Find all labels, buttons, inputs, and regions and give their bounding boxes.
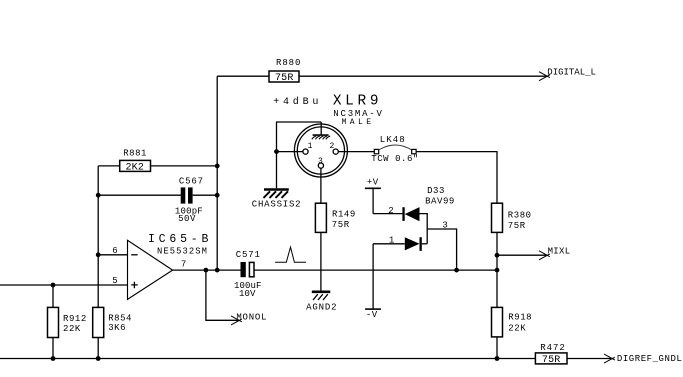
svg-text:R149: R149 <box>332 209 356 219</box>
resistor R881 <box>120 160 151 171</box>
value 22K of R918 <box>508 323 526 333</box>
wire MONOL branch <box>206 270 239 320</box>
svg-text:75R: 75R <box>508 221 526 231</box>
label R880 <box>276 58 301 68</box>
wire R912 bottom <box>52 338 54 359</box>
svg-text:+V: +V <box>367 177 379 187</box>
resistor R472 <box>535 353 567 364</box>
label NC3MA-V <box>333 109 383 119</box>
wire R912 top <box>52 285 54 307</box>
svg-text:1: 1 <box>389 235 395 245</box>
XLR pin 2 circle <box>333 149 338 154</box>
value 75R of R880 <box>275 73 294 84</box>
op-amp plus sign <box>131 282 138 289</box>
jumper LK48 left pad <box>374 149 378 153</box>
diode D33a triangle <box>405 207 420 221</box>
label R854 <box>108 313 132 323</box>
capacitor C571 minus plate <box>249 262 254 276</box>
pin number 6 <box>112 246 118 256</box>
label BAV99 <box>425 196 455 206</box>
wire pin2 to LK48 <box>338 151 374 153</box>
ground CHASSIS2 bar <box>264 188 289 191</box>
svg-text:NE5532SM: NE5532SM <box>157 247 208 257</box>
junction shell-pin1 <box>274 149 279 154</box>
resistor R149 <box>315 203 326 232</box>
wire diode pin1 <box>373 243 405 245</box>
junction rail-R854 <box>96 356 101 361</box>
svg-text:1: 1 <box>308 142 313 151</box>
svg-text:DIGITAL_L: DIGITAL_L <box>547 67 596 77</box>
pin number 3 of XLR <box>318 157 323 166</box>
resistor R854 <box>93 307 104 337</box>
svg-text:IC65-B: IC65-B <box>148 233 212 246</box>
op-amp minus sign <box>131 254 137 256</box>
label R149 <box>332 209 356 219</box>
svg-text:MONOL: MONOL <box>236 312 267 322</box>
resistor R918 <box>492 307 503 337</box>
wire diode pin2 <box>373 213 402 215</box>
XLR shell chassis hatch <box>312 135 330 139</box>
value TCW 0.6" <box>371 154 419 164</box>
junction MIXL <box>495 253 500 258</box>
pin number 3 of D33 <box>442 221 448 231</box>
diode D33b triangle <box>405 237 420 250</box>
junction output-monol <box>204 268 209 273</box>
wire inverting node vertical <box>97 166 99 308</box>
label R912 <box>63 314 87 324</box>
wire op-amp pin6 <box>98 254 127 256</box>
junction input-R912 <box>51 283 56 288</box>
node MONOL arrow <box>231 316 242 325</box>
label +V <box>367 177 379 187</box>
value 75R of R472 <box>542 355 561 366</box>
wire XLR shell to chassis <box>277 122 322 188</box>
value 75R of R380 <box>508 221 526 231</box>
svg-text:R854: R854 <box>108 313 132 323</box>
svg-text:R881: R881 <box>123 149 147 159</box>
svg-text:75R: 75R <box>332 220 350 230</box>
svg-text:2: 2 <box>388 206 394 216</box>
svg-text:10V: 10V <box>239 289 256 299</box>
pin number 2 of D33 <box>388 206 394 216</box>
label MALE <box>342 118 375 127</box>
wire R472 to DIGREF <box>567 358 611 360</box>
svg-text:D33: D33 <box>427 186 445 196</box>
value 50V of C567 <box>178 214 196 224</box>
wire MIXL branch <box>497 254 546 256</box>
svg-text:3K6: 3K6 <box>108 323 126 333</box>
value 3K6 of R854 <box>108 323 126 333</box>
svg-text:5: 5 <box>112 276 118 286</box>
label NE5532SM <box>157 247 208 257</box>
label DIGREF_GNDL <box>617 354 682 364</box>
svg-text:7: 7 <box>181 260 187 270</box>
wire ground rail <box>0 358 535 360</box>
label R881 <box>123 149 147 159</box>
svg-text:75R: 75R <box>542 355 561 366</box>
jumper LK48 arc <box>379 145 412 150</box>
value 2K2 of R881 <box>125 162 144 173</box>
svg-text:AGND2: AGND2 <box>306 302 337 312</box>
label MONOL <box>236 312 267 322</box>
label C567 <box>179 177 204 187</box>
wire C567 left <box>98 194 181 196</box>
junction feedback-R881 <box>215 164 220 169</box>
pin number 5 <box>112 276 118 286</box>
label D33 <box>427 186 445 196</box>
label R918 <box>508 312 532 322</box>
junction rail-R918 <box>495 356 500 361</box>
wire op-amp pin5 input from left edge <box>0 284 128 286</box>
wire feedback vertical column <box>216 76 218 270</box>
power -V symbol <box>365 244 381 309</box>
resistor R380 <box>492 203 503 232</box>
resistor R880 <box>269 71 299 82</box>
svg-text:C571: C571 <box>236 250 261 260</box>
wire main signal to right column <box>254 269 497 271</box>
wire D33b to common <box>422 243 427 245</box>
ground AGND2 hatch <box>313 294 328 300</box>
svg-text:R880: R880 <box>276 58 301 68</box>
label R380 <box>508 210 532 220</box>
wire C567 right <box>193 194 218 196</box>
value 100uF of C571 <box>234 281 262 291</box>
svg-text:6: 6 <box>112 246 118 256</box>
node MIXL arrow <box>539 251 550 260</box>
wire pin3 down <box>320 168 322 203</box>
jumper LK48 right pad <box>412 149 416 153</box>
svg-text:LK48: LK48 <box>380 135 406 145</box>
XLR pin 3 circle <box>318 163 323 168</box>
label CHASSIS2 <box>252 200 302 210</box>
wire op-amp output <box>173 269 241 271</box>
svg-text:2K2: 2K2 <box>125 162 144 173</box>
svg-text:+4dBu: +4dBu <box>273 96 322 108</box>
svg-text:TCW 0.6": TCW 0.6" <box>371 154 419 164</box>
wire LK48 to R380 column <box>416 152 497 204</box>
wire digital_l horizontal <box>217 75 546 77</box>
svg-text:XLR9: XLR9 <box>333 94 382 110</box>
label -V <box>366 310 378 320</box>
svg-text:22K: 22K <box>508 323 526 333</box>
svg-text:MIXL: MIXL <box>548 246 571 256</box>
pin number 1 of XLR <box>308 142 313 151</box>
XLR pin 1 circle <box>303 149 308 154</box>
junction signal-pin3diode <box>454 268 459 273</box>
wire R918 to rail <box>496 337 498 359</box>
wire R380 to MIXL junction <box>496 232 498 307</box>
svg-text:R912: R912 <box>63 314 87 324</box>
svg-text:R380: R380 <box>508 210 532 220</box>
svg-text:50V: 50V <box>178 214 196 224</box>
svg-text:DIGREF_GNDL: DIGREF_GNDL <box>617 354 682 364</box>
wire diode D33a to common <box>420 214 428 244</box>
label DIGITAL_L <box>547 67 596 77</box>
value 10V of C571 <box>239 289 256 299</box>
junction feedback-C567 <box>215 193 220 198</box>
svg-text:R472: R472 <box>540 343 565 353</box>
svg-text:75R: 75R <box>275 73 294 84</box>
junction feedback-output <box>215 268 220 273</box>
pin number 2 of XLR <box>329 142 334 151</box>
capacitor C571 plus plate <box>241 262 246 277</box>
node DIGREF_GNDL arrow <box>604 354 615 363</box>
svg-text:22K: 22K <box>63 324 81 334</box>
svg-text:2: 2 <box>329 142 334 151</box>
svg-text:BAV99: BAV99 <box>425 196 455 206</box>
resistor R912 <box>48 307 59 337</box>
XLR shell chassis stub <box>320 122 322 135</box>
connector XLR9 outer ring <box>294 124 347 177</box>
svg-text:MALE: MALE <box>342 118 375 127</box>
svg-text:3: 3 <box>442 221 448 231</box>
value 100pF of C567 <box>175 207 203 217</box>
pin number 7 <box>181 260 187 270</box>
label IC65-B <box>148 233 212 246</box>
label MIXL <box>548 246 571 256</box>
node DIGITAL_L arrow <box>539 72 550 81</box>
value 22K of R912 <box>63 324 81 334</box>
pin number 1 of D33 <box>389 235 395 245</box>
svg-text:C567: C567 <box>179 177 204 187</box>
label LK48 <box>380 135 406 145</box>
capacitor C567 <box>181 187 193 203</box>
svg-text:R918: R918 <box>508 312 532 322</box>
junction inv-C567 <box>96 193 101 198</box>
wire R881 horizontal <box>98 165 217 167</box>
junction signal-R380col <box>495 268 500 273</box>
svg-text:CHASSIS2: CHASSIS2 <box>252 200 302 210</box>
label C571 <box>236 250 261 260</box>
value 75R of R149 <box>332 220 350 230</box>
op-amp U IC65-B triangle <box>128 240 173 299</box>
label XLR9 <box>333 94 382 110</box>
diode D33b cathode bar <box>420 237 422 251</box>
wire common pin3 of D33 <box>427 229 456 270</box>
wire R854 bottom <box>97 338 99 359</box>
label R472 <box>540 343 565 353</box>
junction inv-pin6 <box>96 252 101 257</box>
junction rail-R912 <box>51 356 56 361</box>
wire pin1 <box>277 151 303 153</box>
waveform spike symbol <box>275 247 306 262</box>
label AGND2 <box>306 302 337 312</box>
wire R149 to AGND2 <box>320 232 322 290</box>
power +V symbol <box>365 188 381 213</box>
label +4dBu <box>273 96 322 108</box>
svg-text:-V: -V <box>366 310 378 320</box>
diode D33a cathode bar <box>402 207 404 221</box>
ground AGND2 bar <box>312 290 331 293</box>
svg-text:3: 3 <box>318 157 323 166</box>
ground CHASSIS2 hatch <box>264 191 289 198</box>
connector XLR9 inner ring <box>297 127 344 174</box>
